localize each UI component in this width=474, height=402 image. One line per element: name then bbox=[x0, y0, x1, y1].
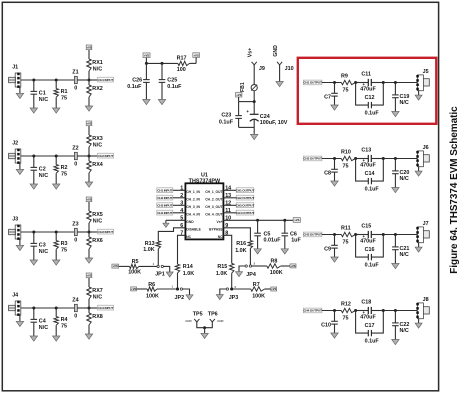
svg-text:R8: R8 bbox=[271, 259, 278, 265]
svg-text:Z4: Z4 bbox=[72, 297, 78, 303]
svg-text:0: 0 bbox=[74, 238, 77, 244]
svg-text:CH2 INPUT: CH2 INPUT bbox=[98, 154, 113, 158]
svg-text:CH1 OUTPUT: CH1 OUTPUT bbox=[303, 81, 322, 85]
svg-text:C26: C26 bbox=[132, 77, 142, 83]
svg-text:NC: NC bbox=[218, 235, 223, 239]
svg-text:CH3 OUTPUT: CH3 OUTPUT bbox=[303, 233, 322, 237]
svg-text:RX2: RX2 bbox=[92, 86, 103, 92]
svg-text:C17: C17 bbox=[365, 323, 375, 329]
svg-text:J6: J6 bbox=[423, 145, 429, 151]
svg-text:J8: J8 bbox=[423, 297, 429, 303]
svg-text:R15: R15 bbox=[217, 264, 227, 270]
svg-text:+VS: +VS bbox=[86, 122, 91, 126]
svg-text:75: 75 bbox=[61, 323, 67, 329]
svg-text:J2: J2 bbox=[12, 140, 18, 146]
svg-text:C18: C18 bbox=[361, 299, 371, 305]
svg-text:R16: R16 bbox=[236, 241, 246, 247]
svg-text:Vs+: Vs+ bbox=[217, 220, 223, 224]
svg-text:R6: R6 bbox=[148, 282, 155, 288]
svg-text:0: 0 bbox=[74, 314, 77, 320]
svg-text:C9: C9 bbox=[324, 246, 331, 252]
svg-text:N/C: N/C bbox=[39, 97, 48, 103]
svg-text:RX3: RX3 bbox=[92, 136, 103, 142]
svg-text:CH1 OUTPUT: CH1 OUTPUT bbox=[236, 188, 255, 192]
svg-text:0.1uF: 0.1uF bbox=[127, 84, 142, 90]
svg-text:N/C: N/C bbox=[39, 325, 48, 331]
svg-text:JP2: JP2 bbox=[175, 295, 185, 301]
svg-text:RX7: RX7 bbox=[92, 288, 103, 294]
svg-text:+VS: +VS bbox=[194, 53, 199, 57]
svg-text:Z3: Z3 bbox=[72, 221, 78, 227]
svg-text:+VS: +VS bbox=[144, 54, 149, 58]
svg-text:CH4 OUTPUT: CH4 OUTPUT bbox=[303, 309, 322, 313]
svg-text:J4: J4 bbox=[12, 292, 18, 298]
svg-text:N/C: N/C bbox=[400, 328, 409, 334]
svg-text:CH_4_OUT: CH_4_OUT bbox=[205, 212, 222, 216]
svg-text:N/C: N/C bbox=[93, 295, 102, 301]
svg-text:0.1uF: 0.1uF bbox=[167, 84, 182, 90]
svg-text:CH3 INPUT: CH3 INPUT bbox=[157, 203, 172, 207]
svg-text:0.1uF: 0.1uF bbox=[365, 110, 380, 116]
svg-text:R5: R5 bbox=[132, 259, 139, 265]
svg-text:RX6: RX6 bbox=[92, 238, 103, 244]
svg-text:470uF: 470uF bbox=[360, 86, 376, 92]
svg-text:RX4: RX4 bbox=[92, 162, 103, 168]
svg-text:CH_1_IN: CH_1_IN bbox=[186, 190, 200, 194]
svg-text:R10: R10 bbox=[341, 149, 351, 155]
svg-text:+VS: +VS bbox=[86, 198, 91, 202]
svg-text:C16: C16 bbox=[365, 247, 375, 253]
svg-text:R17: R17 bbox=[177, 55, 187, 61]
svg-text:N/C: N/C bbox=[93, 219, 102, 225]
svg-text:J7: J7 bbox=[423, 221, 429, 227]
svg-text:GND: GND bbox=[185, 319, 191, 323]
svg-text:NC: NC bbox=[186, 235, 191, 239]
svg-text:+VS: +VS bbox=[113, 264, 118, 268]
svg-text:CH_1_OUT: CH_1_OUT bbox=[205, 190, 222, 194]
svg-text:N/C: N/C bbox=[400, 176, 409, 182]
svg-text:75: 75 bbox=[343, 240, 349, 246]
svg-text:J1: J1 bbox=[12, 64, 18, 70]
svg-text:C15: C15 bbox=[361, 223, 371, 229]
svg-text:1.0K: 1.0K bbox=[183, 271, 194, 277]
svg-text:CH3 INPUT: CH3 INPUT bbox=[98, 230, 113, 234]
svg-text:0.01uF: 0.01uF bbox=[264, 237, 282, 243]
svg-text:CH_2_IN: CH_2_IN bbox=[186, 197, 200, 201]
svg-text:CH4 INPUT: CH4 INPUT bbox=[157, 211, 172, 215]
svg-text:+VS: +VS bbox=[294, 218, 299, 222]
svg-text:C14: C14 bbox=[365, 171, 375, 177]
svg-text:Vs+: Vs+ bbox=[247, 48, 253, 57]
svg-text:C2: C2 bbox=[39, 167, 46, 173]
svg-text:J9: J9 bbox=[259, 66, 265, 72]
svg-text:75: 75 bbox=[343, 164, 349, 170]
svg-text:100K: 100K bbox=[146, 294, 159, 300]
svg-text:TP6: TP6 bbox=[208, 312, 218, 318]
svg-text:Z1: Z1 bbox=[72, 69, 78, 75]
svg-text:JP3: JP3 bbox=[229, 295, 239, 301]
svg-text:75: 75 bbox=[61, 247, 67, 253]
svg-text:470uF: 470uF bbox=[360, 314, 376, 320]
svg-text:+VS: +VS bbox=[271, 287, 276, 291]
svg-text:CH_3_OUT: CH_3_OUT bbox=[205, 205, 222, 209]
svg-text:R9: R9 bbox=[341, 73, 348, 79]
svg-text:Figure 64. THS7374 EVM Schema: Figure 64. THS7374 EVM Schematic bbox=[449, 106, 460, 274]
svg-text:RX1: RX1 bbox=[92, 60, 103, 66]
svg-text:FB1: FB1 bbox=[240, 82, 246, 92]
svg-text:C12: C12 bbox=[365, 95, 375, 101]
svg-text:470uF: 470uF bbox=[360, 238, 376, 244]
svg-text:100uF, 10V: 100uF, 10V bbox=[260, 120, 288, 126]
svg-text:N/C: N/C bbox=[400, 252, 409, 258]
svg-text:1uF: 1uF bbox=[291, 238, 301, 244]
svg-text:J3: J3 bbox=[12, 216, 18, 222]
svg-text:CH2 OUTPUT: CH2 OUTPUT bbox=[303, 157, 322, 161]
svg-text:J10: J10 bbox=[285, 66, 294, 72]
svg-text:R3: R3 bbox=[61, 241, 68, 247]
svg-text:C8: C8 bbox=[324, 170, 331, 176]
svg-text:75: 75 bbox=[61, 171, 67, 177]
svg-text:C10: C10 bbox=[321, 322, 331, 328]
svg-text:J5: J5 bbox=[423, 69, 429, 75]
svg-text:CH_2_OUT: CH_2_OUT bbox=[205, 197, 222, 201]
svg-text:CH4 INPUT: CH4 INPUT bbox=[98, 306, 113, 310]
svg-text:N/C: N/C bbox=[93, 143, 102, 149]
svg-text:C4: C4 bbox=[39, 319, 46, 325]
svg-text:N/C: N/C bbox=[93, 67, 102, 73]
svg-text:CH1 INPUT: CH1 INPUT bbox=[98, 78, 113, 82]
svg-text:0: 0 bbox=[74, 86, 77, 92]
svg-text:R4: R4 bbox=[61, 317, 68, 323]
svg-text:75: 75 bbox=[61, 95, 67, 101]
svg-text:C3: C3 bbox=[39, 243, 46, 249]
svg-text:+VS: +VS bbox=[131, 287, 136, 291]
svg-text:JP4: JP4 bbox=[246, 272, 256, 278]
svg-text:+VS: +VS bbox=[86, 274, 91, 278]
svg-text:R12: R12 bbox=[341, 301, 351, 307]
svg-text:0.1uF: 0.1uF bbox=[365, 262, 380, 268]
svg-text:C13: C13 bbox=[361, 147, 371, 153]
svg-text:R2: R2 bbox=[61, 165, 68, 171]
svg-text:GND: GND bbox=[186, 220, 194, 224]
svg-text:75: 75 bbox=[343, 88, 349, 94]
svg-text:CH_4_IN: CH_4_IN bbox=[186, 212, 200, 216]
svg-text:CH_3_IN: CH_3_IN bbox=[186, 205, 200, 209]
svg-text:R7: R7 bbox=[253, 282, 260, 288]
svg-text:DISABLE: DISABLE bbox=[186, 227, 201, 231]
svg-text:CH3 OUTPUT: CH3 OUTPUT bbox=[236, 203, 255, 207]
svg-text:C11: C11 bbox=[361, 71, 371, 77]
svg-text:+VS: +VS bbox=[290, 264, 295, 268]
svg-text:C6: C6 bbox=[290, 231, 297, 237]
svg-text:CH4 OUTPUT: CH4 OUTPUT bbox=[236, 211, 255, 215]
svg-text:GND: GND bbox=[217, 319, 223, 323]
svg-text:1.0K: 1.0K bbox=[216, 271, 227, 277]
svg-text:Z2: Z2 bbox=[72, 145, 78, 151]
svg-text:+: + bbox=[246, 109, 249, 114]
svg-text:C1: C1 bbox=[39, 91, 46, 97]
svg-text:100K: 100K bbox=[252, 294, 265, 300]
svg-text:470uF: 470uF bbox=[360, 162, 376, 168]
svg-text:C23: C23 bbox=[221, 113, 231, 119]
svg-text:N/C: N/C bbox=[39, 173, 48, 179]
svg-text:RX8: RX8 bbox=[92, 314, 103, 320]
svg-text:N/C: N/C bbox=[400, 100, 409, 106]
svg-text:75: 75 bbox=[343, 316, 349, 322]
svg-text:CH1 INPUT: CH1 INPUT bbox=[157, 188, 172, 192]
svg-text:JP1: JP1 bbox=[155, 272, 165, 278]
svg-text:GND: GND bbox=[273, 45, 279, 57]
svg-text:N/C: N/C bbox=[39, 249, 48, 255]
svg-text:1.0K: 1.0K bbox=[235, 248, 246, 254]
svg-text:100K: 100K bbox=[270, 270, 283, 276]
svg-text:R14: R14 bbox=[183, 264, 193, 270]
svg-text:C7: C7 bbox=[324, 94, 331, 100]
svg-text:RX5: RX5 bbox=[92, 212, 103, 218]
svg-text:R11: R11 bbox=[341, 225, 351, 231]
svg-text:R1: R1 bbox=[61, 89, 68, 95]
svg-text:0.1uF: 0.1uF bbox=[219, 119, 234, 125]
svg-text:C25: C25 bbox=[167, 77, 177, 83]
svg-text:0.1uF: 0.1uF bbox=[365, 338, 380, 344]
svg-text:CH2 INPUT: CH2 INPUT bbox=[157, 196, 172, 200]
svg-text:+VS: +VS bbox=[236, 93, 241, 97]
svg-text:0.1uF: 0.1uF bbox=[365, 186, 380, 192]
svg-text:+VS: +VS bbox=[86, 46, 91, 50]
svg-text:BYPASS: BYPASS bbox=[209, 227, 223, 231]
svg-text:1.0K: 1.0K bbox=[143, 247, 154, 253]
svg-text:0: 0 bbox=[74, 162, 77, 168]
svg-text:100: 100 bbox=[177, 67, 186, 73]
svg-text:100K: 100K bbox=[128, 270, 141, 276]
svg-text:TP5: TP5 bbox=[193, 312, 203, 318]
svg-text:CH2 OUTPUT: CH2 OUTPUT bbox=[236, 196, 255, 200]
